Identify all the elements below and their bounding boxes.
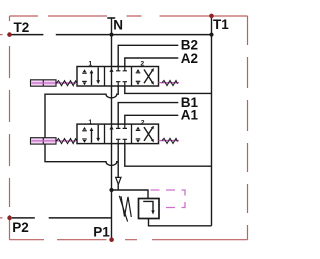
enclosure dashed border bottom	[10, 239, 248, 241]
spool axis line right	[159, 82, 180, 84]
left box down arrow	[97, 67, 99, 81]
relief valve RV1 internal arrow	[143, 201, 153, 210]
valve body	[77, 67, 159, 87]
port dot T1	[209, 14, 214, 19]
port dot T2	[7, 32, 12, 37]
centre box blocked stubs bottom	[116, 82, 120, 86]
svg-text:A1: A1	[181, 108, 199, 123]
wire relief valve inlet	[112, 190, 149, 199]
junction T-line at T1	[210, 33, 214, 37]
return spring right	[162, 80, 178, 85]
svg-text:2: 2	[141, 119, 145, 126]
wire V1 right return loop	[125, 86, 212, 93]
junction pump node	[109, 188, 113, 192]
relief valve RV1 adjustable spring	[121, 196, 131, 217]
svg-text:1: 1	[88, 119, 92, 126]
svg-text:N: N	[113, 18, 123, 33]
actuator group V1	[31, 80, 180, 86]
spool axis line left	[31, 82, 77, 84]
port dot P2	[7, 216, 12, 221]
wire tank return bottom to relief outlet	[149, 219, 212, 226]
relief valve RV1 body	[139, 199, 160, 219]
valve V2 section group	[77, 124, 159, 144]
enclosure dashed border right	[247, 16, 249, 240]
svg-text:T1: T1	[213, 17, 229, 32]
wire P1 vertical	[111, 190, 113, 240]
relief valve RV1 pilot line (dashed)	[151, 190, 186, 208]
right box crossed arrows	[144, 71, 152, 84]
valve V1 section group	[77, 67, 159, 87]
svg-text:2: 2	[140, 61, 144, 68]
wire port B1	[118, 103, 178, 125]
svg-text:1: 1	[88, 61, 92, 68]
svg-text:A2: A2	[181, 51, 198, 66]
left box up arrow	[91, 72, 93, 85]
centre box blocked stubs top	[116, 67, 120, 71]
wire P2 line (with gap)	[12, 217, 112, 219]
wire port A1	[125, 115, 179, 124]
edge tick at T2	[0, 34, 3, 35]
wire N vertical into valve V1	[111, 18, 113, 67]
junction N	[110, 33, 114, 37]
lever actuator box	[31, 80, 57, 86]
right box blocked ports	[136, 69, 140, 72]
edge tick at P2	[0, 217, 3, 218]
wire port B2	[118, 45, 178, 66]
enclosure dashed border top	[10, 15, 248, 17]
return spring left	[57, 81, 78, 86]
svg-text:P2: P2	[12, 220, 29, 235]
wire N between valves	[111, 86, 113, 124]
left box blocked ports	[83, 69, 87, 72]
wire N below V2 to pump node	[111, 144, 113, 190]
flow direction triangle	[116, 177, 121, 184]
wire port A2	[125, 58, 179, 67]
wire T1 vertical	[211, 16, 213, 226]
port dot P1	[109, 237, 114, 242]
centre box open-centre arrow	[111, 67, 113, 87]
svg-text:T2: T2	[14, 20, 30, 35]
actuator group V2	[31, 138, 180, 144]
enclosure dashed border left	[9, 16, 11, 240]
node N plug cap	[107, 17, 115, 19]
svg-text:P1: P1	[93, 224, 110, 239]
wire V2 return drop through flow arrow	[117, 144, 119, 190]
wire V1 left return loop with hops over N line	[45, 86, 118, 165]
wire T2 to N (tank line, with gap)	[11, 34, 212, 36]
wire V2 right return loop	[125, 144, 212, 167]
